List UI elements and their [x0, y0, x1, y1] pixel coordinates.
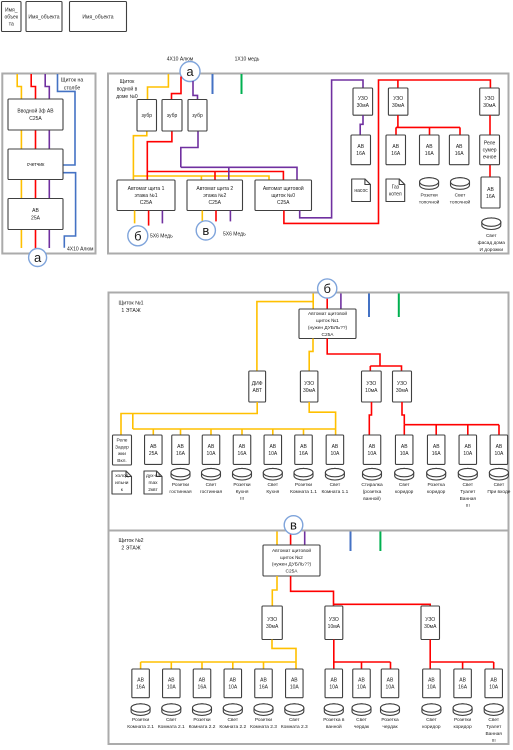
svg-text:Имя_: Имя_	[5, 7, 18, 13]
svg-text:10А: 10А	[228, 685, 238, 691]
svg-text:16А: 16А	[486, 194, 496, 200]
svg-text:!!!: !!!	[492, 738, 496, 744]
svg-text:16А: 16А	[299, 451, 309, 457]
svg-text:щиток №2: щиток №2	[280, 555, 303, 561]
svg-text:С25А: С25А	[277, 200, 290, 206]
svg-text:16А: 16А	[198, 685, 208, 691]
svg-text:Розетки: Розетки	[295, 482, 313, 488]
svg-text:АВ: АВ	[269, 444, 276, 450]
svg-text:Комната 2.2: Комната 2.2	[189, 724, 216, 730]
svg-text:счетчик: счетчик	[27, 162, 45, 168]
svg-text:Свет: Свет	[486, 233, 497, 239]
svg-text:Свет: Свет	[330, 482, 341, 488]
svg-text:та: та	[9, 21, 14, 27]
svg-text:АВ: АВ	[137, 678, 144, 684]
svg-text:Свет: Свет	[206, 482, 217, 488]
svg-text:10А: 10А	[330, 451, 340, 457]
svg-text:Розетка: Розетка	[381, 717, 399, 723]
svg-text:10А: 10А	[427, 685, 437, 691]
svg-text:АВ: АВ	[168, 678, 175, 684]
svg-text:Свет: Свет	[267, 482, 278, 488]
svg-text:Розетки: Розетки	[255, 717, 273, 723]
svg-text:Вкл.: Вкл.	[117, 458, 126, 464]
svg-text:16А: 16А	[356, 151, 366, 157]
svg-text:10А: 10А	[368, 451, 378, 457]
svg-text:30мА: 30мА	[424, 624, 437, 630]
svg-text:зубр: зубр	[192, 113, 203, 119]
svg-text:Свет: Свет	[289, 717, 300, 723]
svg-text:АВ: АВ	[332, 444, 339, 450]
svg-text:16А: 16А	[238, 451, 248, 457]
svg-text:Автомат щитовой: Автомат щитовой	[308, 310, 347, 317]
svg-text:max: max	[148, 481, 158, 486]
svg-text:Щиток на: Щиток на	[61, 78, 84, 84]
svg-text:Туалет: Туалет	[486, 724, 502, 730]
svg-text:10А: 10А	[268, 451, 278, 457]
svg-text:жки: жки	[118, 452, 126, 457]
svg-text:Газ: Газ	[392, 185, 400, 191]
svg-text:1X10 медь: 1X10 медь	[235, 57, 260, 63]
svg-text:УЗО: УЗО	[267, 617, 277, 623]
svg-text:дух-ка: дух-ка	[146, 474, 160, 479]
svg-text:б: б	[323, 281, 330, 296]
svg-text:5Х6 Медь: 5Х6 Медь	[223, 231, 246, 237]
svg-text:10мА: 10мА	[328, 624, 341, 630]
svg-text:топочной: топочной	[419, 199, 440, 206]
svg-text:АВ: АВ	[487, 187, 494, 193]
svg-text:Свет: Свет	[488, 717, 499, 723]
svg-text:10А: 10А	[400, 451, 410, 457]
svg-text:коридор: коридор	[422, 725, 441, 730]
svg-text:АВ: АВ	[357, 144, 364, 150]
svg-text:Щиток: Щиток	[120, 79, 135, 85]
svg-text:ванной): ванной)	[363, 495, 381, 502]
svg-text:10А: 10А	[463, 451, 473, 457]
svg-text:2 ЭТАЖ: 2 ЭТАЖ	[121, 546, 141, 552]
svg-text:ванной: ванной	[326, 723, 342, 730]
svg-text:30мА: 30мА	[266, 624, 279, 630]
svg-text:10А: 10А	[494, 451, 504, 457]
svg-text:АВ: АВ	[291, 678, 298, 684]
svg-text:Ванная: Ванная	[485, 731, 502, 737]
svg-text:гостинная: гостинная	[169, 490, 192, 495]
svg-text:УЗО: УЗО	[366, 381, 376, 387]
svg-text:Комната 2.1: Комната 2.1	[158, 724, 185, 730]
svg-text:УЗО: УЗО	[484, 96, 494, 102]
svg-text:Автомат щитовой: Автомат щитовой	[263, 185, 304, 192]
svg-text:Ванная: Ванная	[460, 496, 477, 502]
svg-text:АВ: АВ	[490, 678, 497, 684]
svg-text:щиток №0: щиток №0	[271, 193, 295, 199]
svg-text:Свет: Свет	[426, 717, 437, 723]
svg-text:АВ: АВ	[199, 678, 206, 684]
svg-text:Автомат щитовой: Автомат щитовой	[272, 547, 311, 554]
svg-text:АВ: АВ	[387, 678, 394, 684]
svg-text:Розетки: Розетки	[454, 717, 472, 723]
svg-text:Розетка: Розетка	[428, 482, 446, 488]
svg-text:фасад дома: фасад дома	[478, 240, 506, 246]
svg-text:С25А: С25А	[208, 200, 221, 206]
svg-text:10А: 10А	[386, 685, 396, 691]
svg-text:ильни: ильни	[115, 481, 129, 486]
svg-text:Розетки: Розетки	[193, 717, 211, 723]
svg-text:УЗО: УЗО	[397, 381, 407, 387]
svg-text:зубр: зубр	[142, 113, 153, 119]
svg-text:насос: насос	[354, 188, 368, 194]
svg-text:АВ: АВ	[300, 444, 307, 450]
svg-text:АВ: АВ	[426, 144, 433, 150]
svg-text:б: б	[134, 228, 141, 243]
svg-text:Стиралка: Стиралка	[361, 482, 383, 488]
svg-text:АВ: АВ	[260, 678, 267, 684]
svg-text:АВ: АВ	[456, 144, 463, 150]
svg-text:АВ: АВ	[464, 444, 471, 450]
svg-text:Свет: Свет	[227, 717, 238, 723]
svg-text:щиток №1: щиток №1	[316, 318, 339, 324]
svg-text:ДИФ: ДИФ	[252, 381, 263, 387]
svg-text:УЗО: УЗО	[358, 96, 368, 102]
svg-text:Свет: Свет	[356, 717, 367, 723]
svg-text:УЗО: УЗО	[329, 617, 339, 623]
svg-text:Свет: Свет	[399, 482, 410, 488]
svg-text:чердак: чердак	[382, 725, 398, 730]
svg-text:16А: 16А	[391, 151, 401, 157]
svg-text:16А: 16А	[425, 151, 435, 157]
svg-text:30мА: 30мА	[357, 103, 370, 109]
svg-text:10А: 10А	[357, 685, 367, 691]
svg-text:АВ: АВ	[369, 444, 376, 450]
svg-text:Задер: Задер	[115, 444, 129, 450]
svg-text:2квт: 2квт	[148, 487, 158, 493]
svg-text:котел: котел	[389, 192, 402, 198]
svg-text:ечное: ечное	[483, 155, 497, 161]
svg-text:Автомат щита 1: Автомат щита 1	[128, 186, 165, 192]
svg-text:И дорожки: И дорожки	[480, 247, 504, 253]
svg-text:25А: 25А	[31, 216, 41, 222]
svg-text:(нужен ДУБЛЬ??): (нужен ДУБЛЬ??)	[308, 325, 348, 331]
svg-text:УЗО: УЗО	[393, 96, 403, 102]
svg-text:коридор: коридор	[427, 490, 446, 495]
svg-text:Комната 2.2: Комната 2.2	[219, 724, 246, 730]
svg-text:гостинная: гостинная	[200, 490, 223, 495]
svg-text:10А: 10А	[489, 685, 499, 691]
svg-text:!!!: !!!	[240, 496, 244, 502]
svg-text:Свет: Свет	[462, 482, 473, 488]
svg-text:а: а	[34, 250, 42, 265]
svg-text:Комната 1.1: Комната 1.1	[322, 489, 349, 495]
svg-text:коридор: коридор	[453, 725, 472, 730]
svg-text:АВТ: АВТ	[253, 388, 262, 394]
svg-text:Свет: Свет	[494, 482, 505, 488]
svg-text:Имя_объекта: Имя_объекта	[28, 14, 59, 20]
svg-text:АВ: АВ	[459, 678, 466, 684]
svg-text:30мА: 30мА	[303, 388, 316, 394]
svg-text:АВ: АВ	[433, 444, 440, 450]
svg-text:Розетки: Розетки	[233, 482, 251, 488]
svg-text:16А: 16А	[176, 451, 186, 457]
svg-text:Свет: Свет	[166, 717, 177, 723]
svg-text:16А: 16А	[455, 151, 465, 157]
svg-text:Розетка в: Розетка в	[323, 717, 345, 723]
svg-text:АВ: АВ	[428, 678, 435, 684]
svg-text:Розетки: Розетки	[172, 482, 190, 488]
svg-text:АВ: АВ	[150, 444, 157, 450]
svg-text:Комната 2.1: Комната 2.1	[127, 724, 154, 730]
svg-text:16А: 16А	[259, 685, 269, 691]
svg-text:Розетки: Розетки	[420, 193, 438, 199]
svg-text:УЗО: УЗО	[304, 381, 314, 387]
svg-text:Автомат щита 2: Автомат щита 2	[196, 186, 233, 192]
svg-text:АВ: АВ	[239, 444, 246, 450]
svg-text:топочной: топочной	[450, 199, 471, 206]
svg-text:Комната 1.1: Комната 1.1	[290, 489, 317, 495]
svg-text:АВ: АВ	[177, 444, 184, 450]
svg-text:Комната 2.3: Комната 2.3	[281, 724, 308, 730]
svg-text:30мА: 30мА	[392, 103, 405, 109]
svg-text:10А: 10А	[167, 685, 177, 691]
svg-text:АВ: АВ	[496, 444, 503, 450]
svg-text:в: в	[290, 518, 297, 533]
svg-text:АВ: АВ	[330, 678, 337, 684]
svg-text:Реле: Реле	[484, 141, 496, 147]
svg-text:холод: холод	[115, 474, 128, 479]
svg-text:(розетка: (розетка	[363, 489, 382, 495]
svg-text:коридор: коридор	[395, 490, 414, 495]
svg-text:10А: 10А	[290, 685, 300, 691]
svg-text:доме №0: доме №0	[116, 94, 138, 100]
svg-text:25А: 25А	[149, 451, 159, 457]
svg-text:16А: 16А	[432, 451, 442, 457]
svg-text:этажа №2: этажа №2	[203, 193, 226, 199]
svg-text:10А: 10А	[207, 451, 217, 457]
svg-text:30мА: 30мА	[396, 388, 409, 394]
svg-text:Туалет: Туалет	[460, 489, 476, 495]
svg-text:Розетки: Розетки	[132, 717, 150, 723]
svg-text:АВ: АВ	[392, 144, 399, 150]
svg-text:Вводной 3ф АВ: Вводной 3ф АВ	[17, 108, 54, 115]
svg-text:АВ: АВ	[229, 678, 236, 684]
svg-text:объек: объек	[4, 14, 18, 20]
svg-text:Реле: Реле	[117, 437, 128, 443]
svg-text:(нужен ДУБЛЬ??): (нужен ДУБЛЬ??)	[272, 562, 312, 568]
svg-text:С25А: С25А	[29, 116, 42, 122]
svg-text:1 ЭТАЖ: 1 ЭТАЖ	[121, 308, 141, 314]
svg-text:5Х6 Медь: 5Х6 Медь	[150, 233, 173, 239]
svg-text:Кухня: Кухня	[266, 489, 279, 495]
svg-text:4X10 Алюм: 4X10 Алюм	[67, 247, 94, 253]
svg-text:10А: 10А	[329, 685, 339, 691]
svg-text:зубр: зубр	[167, 113, 178, 119]
svg-text:30мА: 30мА	[483, 103, 496, 109]
svg-text:сумер: сумер	[483, 148, 497, 154]
svg-text:этажа №1: этажа №1	[134, 193, 157, 199]
svg-text:10мА: 10мА	[365, 388, 378, 394]
svg-text:С25А: С25А	[286, 569, 299, 575]
svg-text:УЗО: УЗО	[425, 617, 435, 623]
svg-text:АВ: АВ	[401, 444, 408, 450]
svg-text:С25А: С25А	[322, 332, 335, 338]
svg-text:!!!: !!!	[466, 503, 470, 509]
svg-text:АВ: АВ	[32, 208, 39, 214]
svg-text:а: а	[186, 64, 194, 79]
svg-text:АВ: АВ	[358, 678, 365, 684]
svg-text:Щиток №1: Щиток №1	[118, 301, 143, 307]
svg-text:Свет: Свет	[455, 193, 466, 199]
svg-text:При входе: При входе	[487, 489, 510, 495]
svg-text:16А: 16А	[458, 685, 468, 691]
svg-text:16А: 16А	[136, 685, 146, 691]
svg-text:Щиток №2: Щиток №2	[118, 538, 143, 544]
svg-text:чердак: чердак	[354, 725, 370, 730]
svg-text:АВ: АВ	[208, 444, 215, 450]
svg-text:Комната 2.3: Комната 2.3	[250, 724, 277, 730]
svg-text:Имя_объекта: Имя_объекта	[82, 14, 113, 20]
svg-text:водной в: водной в	[117, 86, 138, 93]
svg-text:в: в	[202, 223, 209, 238]
svg-text:С25А: С25А	[140, 200, 153, 206]
svg-text:Кухня: Кухня	[236, 489, 249, 495]
